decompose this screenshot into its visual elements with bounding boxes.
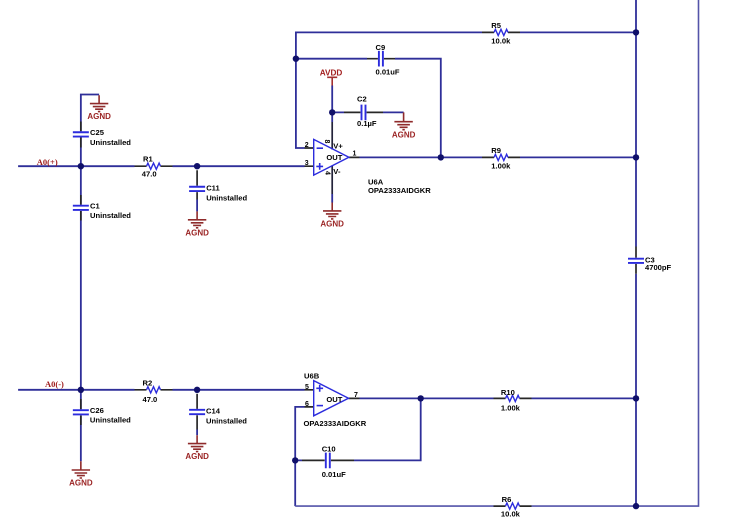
svg-text:Uninstalled: Uninstalled [206, 416, 247, 425]
svg-text:2: 2 [305, 142, 309, 149]
wire pin6 stub [295, 407, 304, 506]
svg-text:1.00k: 1.00k [501, 403, 521, 412]
ground AGND below C26 [72, 461, 90, 478]
svg-text:C14: C14 [206, 407, 221, 416]
junction A0(-) x input column [78, 387, 84, 393]
junction R2 out / C14 [194, 387, 200, 393]
wire A0(-) net [18, 389, 304, 391]
wire right bus x=636 [635, 0, 637, 506]
capacitor C9 [367, 43, 400, 77]
svg-text:C1: C1 [90, 202, 100, 211]
junction R6 x bus [633, 503, 639, 509]
svg-text:10.0k: 10.0k [491, 36, 511, 45]
junction C9 right on output [438, 154, 444, 160]
power AVDD [327, 77, 337, 85]
resistor R2 [135, 378, 173, 403]
svg-text:3: 3 [305, 160, 309, 167]
junction R9 x bus [633, 154, 639, 160]
ground AGND right of C2 [394, 112, 412, 129]
svg-text:4: 4 [323, 171, 330, 175]
resistor R1 [135, 155, 173, 179]
svg-text:Uninstalled: Uninstalled [90, 211, 131, 220]
svg-text:7: 7 [354, 392, 358, 399]
svg-text:6: 6 [305, 401, 309, 408]
svg-text:4700pF: 4700pF [645, 263, 672, 272]
svg-text:C2: C2 [357, 94, 367, 103]
svg-text:R6: R6 [502, 495, 512, 504]
svg-text:0.01uF: 0.01uF [376, 68, 400, 77]
svg-text:AGND: AGND [392, 130, 416, 139]
svg-text:AVDD: AVDD [320, 69, 343, 78]
wire left vertical input column [81, 95, 99, 462]
svg-text:AGND: AGND [87, 112, 111, 121]
svg-text:R1: R1 [143, 155, 153, 164]
wire C11 to ground [196, 200, 198, 212]
svg-text:0.1µF: 0.1µF [357, 119, 377, 128]
svg-text:C11: C11 [206, 184, 220, 193]
svg-text:R10: R10 [501, 388, 515, 397]
junction R1 out / C11 [194, 163, 200, 169]
svg-text:1.00k: 1.00k [491, 161, 511, 170]
svg-text:0.01uF: 0.01uF [322, 470, 346, 479]
wire C9 net [296, 59, 441, 158]
capacitor C26 [73, 399, 131, 425]
capacitor C1 [73, 195, 131, 221]
svg-text:AGND: AGND [320, 220, 344, 229]
svg-text:R2: R2 [143, 378, 153, 387]
wire R6 bottom net [295, 0, 698, 506]
junction C9 on feedback [293, 56, 299, 62]
resistor R9 [482, 146, 520, 170]
resistor R6 [494, 495, 532, 518]
svg-text:R5: R5 [491, 21, 501, 30]
ground AGND top-left [90, 95, 108, 111]
svg-text:C25: C25 [90, 128, 105, 137]
junction C10 right on U6B output [418, 395, 424, 401]
junction C2 on AVDD wire [329, 109, 335, 115]
svg-text:1: 1 [353, 151, 357, 158]
wire A0(+) net [18, 165, 304, 167]
junction C10 left on pin6 vertical [292, 457, 298, 463]
svg-text:Uninstalled: Uninstalled [206, 193, 247, 202]
capacitor C14 [189, 394, 247, 430]
svg-text:OUT: OUT [326, 395, 342, 404]
wire C10 net [295, 398, 421, 460]
ground AGND below C11 [188, 211, 206, 227]
svg-text:C26: C26 [90, 406, 104, 415]
svg-text:R9: R9 [491, 146, 501, 155]
wire AVDD vertical / V+ [331, 86, 333, 123]
svg-text:U6B: U6B [304, 372, 320, 381]
svg-text:C9: C9 [376, 43, 386, 52]
svg-text:OUT: OUT [326, 153, 342, 162]
svg-text:C10: C10 [322, 445, 336, 454]
svg-text:OPA2333AIDGKR: OPA2333AIDGKR [368, 186, 431, 195]
svg-text:Uninstalled: Uninstalled [90, 138, 131, 147]
resistor R10 [494, 388, 532, 412]
svg-text:8: 8 [323, 140, 330, 144]
capacitor C25 [73, 122, 131, 148]
svg-text:V+: V+ [333, 142, 343, 151]
ground AGND U6A V- [323, 203, 341, 219]
junction R5 x bus [633, 29, 639, 35]
wire R5 top net [296, 32, 636, 148]
svg-text:Uninstalled: Uninstalled [90, 416, 131, 425]
capacitor C3 [628, 247, 672, 274]
svg-text:47.0: 47.0 [143, 395, 158, 404]
capacitor C11 [189, 170, 247, 202]
svg-text:10.0k: 10.0k [501, 509, 521, 518]
resistor R5 [482, 21, 520, 46]
svg-text:47.0: 47.0 [142, 169, 157, 178]
wire V- to AGND [331, 194, 333, 203]
capacitor C10 [302, 445, 354, 479]
wire C2 net [332, 111, 403, 113]
capacitor C2 [344, 94, 383, 128]
svg-text:AGND: AGND [69, 479, 93, 488]
op-amp U6A [305, 122, 432, 195]
svg-text:V-: V- [333, 167, 341, 176]
ground AGND below C14 [188, 435, 206, 451]
svg-text:A0(-): A0(-) [45, 379, 64, 389]
svg-text:AGND: AGND [185, 228, 209, 237]
junction A0(+) x input column [78, 163, 84, 169]
svg-text:AGND: AGND [185, 452, 209, 461]
wire U6A output net [360, 156, 637, 158]
wire C14 to ground [196, 430, 198, 436]
svg-text:A0(+): A0(+) [37, 157, 58, 167]
svg-text:5: 5 [305, 384, 309, 391]
junction R10 x bus [633, 395, 639, 401]
svg-text:OPA2333AIDGKR: OPA2333AIDGKR [304, 419, 367, 428]
op-amp U6B [304, 372, 367, 429]
wire U6B output net [360, 397, 637, 399]
